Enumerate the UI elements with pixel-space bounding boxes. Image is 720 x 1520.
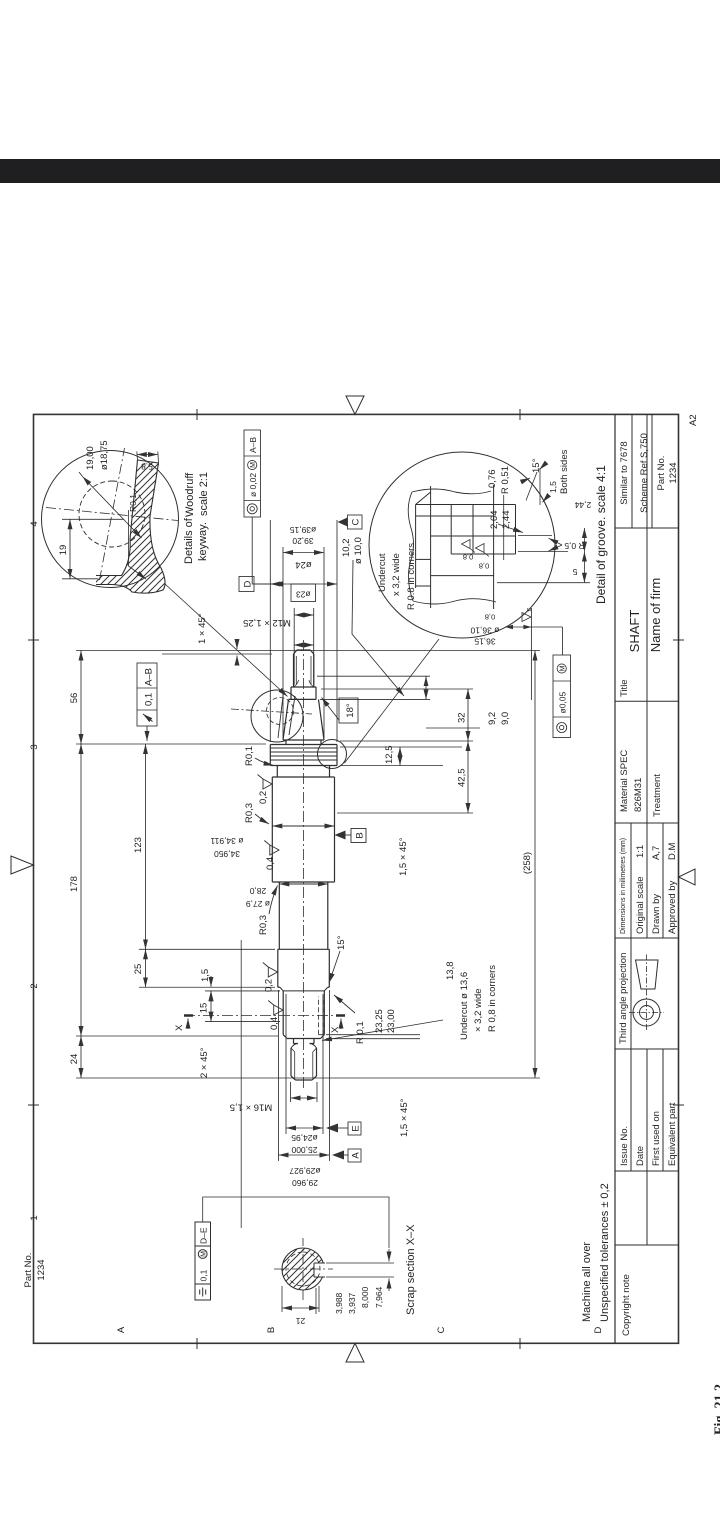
fcf 0,02 box (244, 430, 261, 517)
centering mark left edge (346, 1343, 364, 1362)
dia 23 dim line (294, 614, 314, 616)
dim 25 (145, 949, 147, 987)
svg-text:0,76: 0,76 (487, 470, 498, 489)
svg-text:D: D (593, 1326, 604, 1333)
right column row lines (632, 414, 652, 528)
dim 5 line (583, 552, 585, 583)
key slot lower line (150, 463, 159, 516)
dim 21 ext lines (282, 1286, 319, 1314)
datum C box (348, 515, 363, 529)
section hatched circle (282, 1248, 324, 1290)
hidden keyway lines (319, 997, 324, 1035)
chamfer 15deg line (416, 492, 431, 505)
svg-text:ø0,05: ø0,05 (558, 691, 568, 713)
svg-text:Scheme Ref S,750: Scheme Ref S,750 (639, 433, 650, 513)
svg-text:c: c (524, 608, 533, 612)
dim 5,8 ext lines (137, 452, 159, 464)
svg-text:R 0,1: R 0,1 (355, 1021, 366, 1044)
svg-text:24: 24 (69, 1054, 80, 1065)
datum E triangle (326, 1124, 338, 1133)
key axis dashdot (231, 709, 312, 714)
svg-text:1,5: 1,5 (548, 481, 558, 493)
ext line flange right face (76, 743, 266, 745)
svg-text:0,8: 0,8 (463, 553, 473, 562)
centerline (303, 638, 305, 1088)
dim 178 (80, 744, 82, 1036)
svg-text:Undercut ø 13,6: Undercut ø 13,6 (459, 972, 470, 1040)
svg-text:ø39,15: ø39,15 (289, 525, 316, 535)
material outline left strip (96, 516, 165, 593)
svg-text:scale 2:1: scale 2:1 (198, 472, 210, 516)
0,8 c mark (522, 613, 531, 622)
ext line shoulder 25 (139, 948, 275, 950)
svg-text:A,7: A,7 (651, 846, 662, 860)
groove wall g (416, 558, 431, 560)
surface mark 0,4 on dia23,25 (268, 1001, 283, 1016)
svg-text:D–E: D–E (199, 1227, 209, 1244)
2,64 leader (498, 524, 523, 533)
svg-text:x 3,2 wide: x 3,2 wide (391, 553, 402, 596)
svg-text:21: 21 (296, 1316, 306, 1326)
dia 23 ext lines (294, 608, 314, 685)
svg-text:0,8: 0,8 (479, 562, 489, 571)
svg-text:M16 × 1,5: M16 × 1,5 (230, 1102, 273, 1113)
svg-text:X: X (174, 1024, 185, 1031)
svg-text:28,0: 28,0 (249, 886, 266, 896)
thread dashed circle (286, 1252, 320, 1286)
svg-text:Issue No.: Issue No. (619, 1126, 630, 1166)
svg-text:ø 36,10: ø 36,10 (470, 626, 499, 636)
taper section (283, 699, 324, 740)
dim 15 (210, 991, 212, 1022)
symmetry leader (203, 1197, 389, 1248)
svg-text:First used on: First used on (651, 1111, 662, 1166)
title block top line (614, 414, 616, 1343)
left face of dia 23,25 section (283, 1035, 324, 1039)
groove line 3 (450, 505, 452, 555)
svg-text:39,20: 39,20 (292, 536, 314, 546)
groove line 6 (515, 505, 517, 555)
section plane arrow top (187, 1019, 189, 1030)
dim 2,44 segment (583, 528, 585, 552)
dim 19 line (69, 519, 71, 579)
svg-text:× 3,2 wide: × 3,2 wide (473, 988, 484, 1032)
svg-text:M: M (250, 462, 257, 468)
ext line keyway end (205, 1021, 280, 1023)
svg-text:0,1: 0,1 (199, 1269, 209, 1281)
dim 5,8 line (137, 454, 158, 456)
groove wall b (416, 515, 494, 517)
svg-text:ø23: ø23 (296, 590, 311, 600)
radius leader (503, 495, 505, 560)
R0,1 leader flange (255, 758, 274, 766)
dia 36 ref line (530, 608, 532, 700)
dia 39 ext lines (270, 520, 337, 742)
svg-text:3: 3 (29, 744, 40, 749)
section plane thick ticks (184, 1014, 345, 1017)
dia 39 dim line (270, 583, 337, 585)
M12 dim line (294, 644, 314, 646)
centering mark top edge (11, 856, 34, 874)
long reference line (240, 940, 242, 1228)
flange groove lines (270, 748, 337, 760)
groove wall d (451, 553, 515, 555)
taper surface edge (96, 539, 130, 576)
wavy break left (413, 599, 496, 604)
dia 24 dim line (283, 552, 324, 554)
slot ext lines down (326, 1263, 394, 1277)
svg-text:25: 25 (133, 964, 144, 975)
svg-text:1: 1 (29, 1215, 40, 1220)
svg-text:SHAFT: SHAFT (627, 610, 642, 653)
svg-text:Part No.: Part No. (23, 1253, 34, 1288)
svg-text:2,44: 2,44 (501, 511, 512, 530)
groove wall ext lines (497, 536, 590, 583)
leader to texts (79, 472, 83, 477)
svg-text:19: 19 (58, 545, 69, 556)
quarter row lines (631, 823, 663, 1171)
svg-text:ø 27,9: ø 27,9 (246, 899, 270, 909)
dim 1,5 outside arrows (210, 991, 212, 1000)
mid row line (646, 414, 648, 1245)
M16 thread root lines (291, 1048, 317, 1078)
svg-text:25,000: 25,000 (291, 1145, 317, 1155)
svg-text:A–B: A–B (144, 668, 155, 686)
zone ticks bottom border (673, 640, 684, 1105)
hidden key circle on taper (267, 698, 294, 725)
svg-text:Material SPEC: Material SPEC (619, 750, 630, 812)
svg-text:1,5 × 45°: 1,5 × 45° (399, 1098, 410, 1137)
15 deg leader (329, 951, 340, 983)
groove balloon circle (318, 740, 347, 769)
groove surface mark 1 (462, 540, 476, 553)
surface line od (415, 505, 417, 589)
issue section left line (615, 1170, 679, 1172)
fcf symmetry box (195, 1222, 211, 1300)
svg-text:Fig. 21.2: Fig. 21.2 (713, 1384, 720, 1435)
dim 56 (80, 651, 82, 745)
svg-text:ø24,95: ø24,95 (291, 1133, 318, 1143)
M12 thread root lines (296, 656, 311, 684)
svg-text:Equivalent part: Equivalent part (667, 1102, 678, 1166)
zone ticks right border (197, 409, 520, 420)
18 deg box (339, 698, 358, 723)
dim 123 (145, 744, 147, 949)
datum C triangle (338, 518, 348, 527)
svg-text:0,4: 0,4 (265, 857, 276, 870)
step 1,5 with chamfer (280, 987, 328, 991)
centering mark right edge (346, 396, 364, 414)
svg-text:ø 34,911: ø 34,911 (210, 836, 243, 846)
zone ticks left border (197, 1338, 520, 1349)
dia 25,000 ext lines (286, 994, 323, 1134)
svg-text:M: M (560, 665, 567, 671)
surface mark 0,4 on dia27,9 (264, 841, 279, 856)
undercut between flange and taper (283, 740, 324, 745)
svg-text:15: 15 (199, 1003, 210, 1014)
dia 27,9 section (279, 882, 328, 949)
svg-text:ø18,75: ø18,75 (99, 440, 110, 470)
ext line end face left (76, 1077, 540, 1079)
svg-text:178: 178 (69, 876, 80, 892)
issue section right line (615, 1048, 679, 1050)
svg-text:23,25: 23,25 (374, 1009, 385, 1033)
svg-text:0,1: 0,1 (144, 693, 155, 706)
svg-text:15°: 15° (336, 935, 347, 950)
shoulder line at 25 dim (278, 948, 330, 950)
groove wall f (416, 585, 431, 587)
svg-text:Date: Date (635, 1146, 646, 1166)
svg-text:R 0,5: R 0,5 (564, 541, 585, 551)
svg-text:Both sides: Both sides (559, 449, 570, 494)
R0,3 leader 1 (255, 814, 269, 824)
svg-text:R0,3: R0,3 (244, 803, 255, 823)
svg-text:R0,1: R0,1 (244, 746, 255, 766)
svg-text:R0,1: R0,1 (128, 494, 138, 512)
ext line dia23 start (76, 1035, 278, 1037)
M16 thread runout (291, 1044, 317, 1049)
svg-text:Machine all over: Machine all over (581, 1242, 593, 1322)
dim 42,5 / 32 ext lines (321, 689, 473, 813)
groove wall c (431, 535, 516, 537)
svg-text:Similar to 7678: Similar to 7678 (619, 441, 630, 504)
groove wall e (431, 575, 494, 577)
dim 32 (467, 689, 469, 741)
undercut left leader (322, 1020, 443, 1041)
svg-text:2: 2 (29, 983, 40, 988)
svg-text:Third angle projection: Third angle projection (618, 953, 629, 1044)
svg-text:D.M: D.M (667, 843, 678, 861)
svg-text:29,960: 29,960 (292, 1178, 318, 1188)
slot end line (138, 460, 159, 463)
projection symbol circle view (633, 999, 660, 1026)
keyway slot lines on taper (278, 692, 295, 738)
fcf 0,05 symbol (557, 723, 567, 733)
fcf 0,05 box (553, 655, 571, 738)
svg-text:R0,3: R0,3 (258, 915, 269, 935)
svg-text:1234: 1234 (668, 462, 679, 483)
datum A triangle (332, 1151, 344, 1160)
svg-text:Treatment: Treatment (652, 774, 663, 817)
svg-text:X: X (330, 1026, 341, 1033)
svg-text:3,937: 3,937 (347, 1292, 357, 1314)
svg-text:123: 123 (133, 837, 144, 853)
section plane X-X dashdot (184, 1015, 345, 1017)
svg-text:1:1: 1:1 (635, 845, 646, 858)
dim 42,5 (467, 741, 469, 813)
detail balloon circle (42, 451, 179, 588)
svg-text:R 0,8 in corners: R 0,8 in corners (487, 965, 498, 1032)
svg-text:Unspecified tolerances ± 0,2: Unspecified tolerances ± 0,2 (599, 1183, 611, 1322)
slot lines (314, 1263, 325, 1277)
svg-text:ø29,927: ø29,927 (289, 1166, 320, 1176)
svg-text:Details of: Details of (183, 517, 195, 564)
M16 dim line (291, 1097, 318, 1099)
hatched material region (96, 461, 165, 593)
svg-text:B: B (266, 1327, 277, 1333)
scale section right line (615, 822, 679, 824)
svg-text:0,2: 0,2 (258, 791, 269, 804)
svg-text:A2: A2 (688, 414, 699, 426)
chamfer 1x45 arrows (236, 656, 238, 664)
fcf 0,02 concentric symbol (247, 504, 257, 514)
svg-text:0,4: 0,4 (269, 1017, 280, 1030)
surface line 36 level (430, 486, 432, 608)
groove wall a (416, 504, 516, 506)
svg-text:A: A (116, 1326, 127, 1333)
dim (258) line (534, 651, 536, 1079)
material section right line (615, 700, 679, 702)
svg-text:ø 10,0: ø 10,0 (353, 537, 364, 564)
datum D box (239, 577, 254, 592)
dia 29,960 ext lines (279, 990, 330, 1161)
dia 23,25 ext lines down (326, 1035, 420, 1039)
dia 24 ext lines (283, 547, 324, 738)
svg-text:9,2: 9,2 (487, 712, 498, 725)
svg-text:1234: 1234 (36, 1259, 47, 1280)
svg-text:E: E (351, 1125, 362, 1131)
svg-text:Woodruff: Woodruff (184, 472, 196, 517)
fcf 0,02 leader (252, 517, 284, 584)
groove line 5 (493, 485, 495, 609)
datum A box (348, 1149, 361, 1162)
surface mark 0,2 on dia29,96 (263, 963, 278, 978)
svg-text:42,5: 42,5 (457, 769, 468, 788)
dia 34,95 dim line (272, 825, 334, 827)
copyright cell right line (615, 1244, 679, 1246)
svg-text:R 0,51: R 0,51 (500, 466, 511, 494)
title section right line (615, 527, 679, 529)
svg-text:56: 56 (69, 693, 80, 704)
ext line right end face (76, 650, 540, 652)
dim 19 ext lines (62, 519, 124, 579)
undercut leader (352, 560, 404, 696)
runout leader (146, 726, 148, 741)
svg-text:M: M (201, 1251, 208, 1257)
centering mark bottom edge (679, 869, 696, 885)
svg-text:19,00: 19,00 (85, 446, 96, 470)
frame border (34, 414, 679, 1343)
dia 36 dim line (505, 626, 563, 628)
datum E box (348, 1122, 361, 1135)
grooved flange dia 39 (270, 745, 337, 766)
svg-text:2 × 45°: 2 × 45° (199, 1047, 210, 1078)
svg-text:B: B (355, 832, 366, 838)
svg-text:13,8: 13,8 (445, 962, 456, 981)
R0,1 leader (129, 510, 147, 579)
runout arrow symbol (143, 714, 153, 722)
svg-text:5: 5 (572, 567, 577, 577)
svg-text:34,950: 34,950 (214, 849, 240, 859)
M16 thread end section (291, 1048, 317, 1080)
15deg leader (526, 472, 537, 501)
svg-text:Title: Title (619, 679, 630, 697)
groove line 4 (472, 505, 474, 555)
svg-text:5,8: 5,8 (141, 462, 153, 472)
dia 34,95 section (272, 777, 334, 882)
black bar (0, 159, 720, 183)
svg-text:M12 × 1,25: M12 × 1,25 (243, 617, 291, 628)
dim 8,000 arrows (388, 1279, 390, 1292)
svg-text:18°: 18° (345, 703, 356, 718)
svg-text:7,964: 7,964 (374, 1286, 384, 1308)
zone ticks top border (28, 640, 39, 1105)
svg-text:1,5 × 45°: 1,5 × 45° (398, 837, 409, 876)
M12 thread section (294, 650, 314, 687)
slot notch white (314, 1263, 326, 1277)
datum D stem (254, 583, 270, 585)
svg-text:Approved by: Approved by (667, 880, 678, 934)
svg-text:32: 32 (457, 712, 468, 723)
wavy break top (408, 492, 413, 601)
svg-text:Copyright note: Copyright note (621, 1274, 632, 1336)
svg-text:3,988: 3,988 (334, 1292, 344, 1314)
key circle crosshairs (46, 448, 178, 580)
svg-text:Scrap section X–X: Scrap section X–X (405, 1224, 417, 1315)
svg-text:Drawn by: Drawn by (651, 894, 662, 934)
18 deg leader (322, 698, 340, 721)
svg-text:C: C (436, 1326, 447, 1333)
key circle dashed (79, 481, 145, 547)
svg-text:10,2: 10,2 (341, 539, 352, 558)
svg-text:ø 0,02: ø 0,02 (248, 473, 258, 497)
svg-text:Original scale: Original scale (635, 876, 646, 934)
datum B box (351, 829, 366, 843)
dia 29,96 section (278, 949, 330, 987)
dia 23 box (291, 584, 316, 602)
dia 23,25 section (283, 991, 324, 1035)
groove radius arrows (549, 538, 563, 545)
undercut at M16 (294, 1039, 315, 1044)
svg-text:12,5: 12,5 (384, 746, 395, 765)
shoulder to dia 34,95 (272, 881, 334, 883)
svg-text:C: C (351, 518, 362, 525)
svg-text:8,000: 8,000 (360, 1286, 370, 1308)
dim 9,2 ext lines (317, 676, 480, 728)
svg-text:(258): (258) (522, 852, 533, 874)
dia 29,960 dim line (279, 1154, 330, 1156)
datum B triangle (335, 831, 346, 840)
fcf leader join (562, 627, 564, 655)
projection symbol crosshair (629, 995, 664, 1030)
section crosshairs (274, 1238, 333, 1300)
1,5 arrows (543, 496, 549, 502)
fcf 0,05 M circle (557, 664, 566, 673)
keyway balloon circle (251, 690, 303, 742)
wavy break right (412, 489, 491, 494)
1,5 ext line (539, 468, 541, 505)
section plane arrow bottom (340, 1019, 342, 1030)
symmetry symbol (200, 1288, 206, 1297)
dim 21 line (282, 1307, 319, 1309)
chamfer 1x45 ext lines (162, 653, 272, 655)
svg-text:9,0: 9,0 (500, 712, 511, 725)
M16 dim ext lines (291, 1082, 318, 1102)
projection symbol cone (636, 960, 659, 989)
svg-text:Part No.: Part No. (656, 456, 667, 491)
relief ring R0,1 (272, 766, 334, 778)
svg-text:826M31: 826M31 (633, 778, 644, 812)
key slot upper line (130, 460, 138, 539)
dim 12,5 line (399, 747, 401, 766)
leader to woodruff detail (165, 584, 288, 697)
datum B stem (346, 834, 352, 836)
svg-text:Name of firm: Name of firm (648, 578, 663, 652)
dim 12,5 ext lines (340, 747, 462, 766)
projection section right line (615, 937, 679, 939)
surface mark 0,2 on dia34,95 (258, 775, 273, 790)
svg-text:0,8: 0,8 (485, 613, 495, 622)
